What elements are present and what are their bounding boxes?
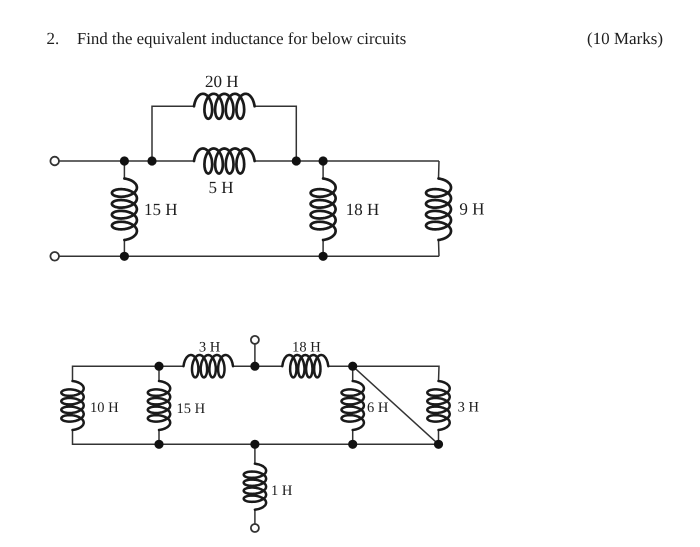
inductor 15 H (vertical) [112,179,137,241]
marks label "(10 Marks)" [588,32,663,47]
inductor 9 H (vertical, right edge) [426,179,451,241]
wire: diagonal short-circuit link [353,366,439,444]
node dot: top rail / 20H branch return [292,156,301,165]
node dot: top rail / 15H [120,156,129,165]
inductor 5 H (horizontal, main rail) [194,149,255,174]
inductor 10 H (vertical, left edge) [61,381,83,430]
node dot: circuit 2 bottom rail / 15H [154,440,163,449]
value label 20 H [206,76,238,88]
problem text "Find the equivalent inductance for below circuits" [77,32,405,47]
node dot: circuit 2 bottom rail right corner [434,440,443,449]
wire: lower 15H bottom lead [158,430,160,444]
value label 9 H [460,203,484,215]
wire: circuit 2 bottom rail [73,430,439,444]
value label 15 H [146,204,178,215]
wire: 15H bottom lead [123,240,125,256]
terminal: circuit 2 input top middle [251,336,259,344]
node dot: circuit 2 top rail / 6H and diagonal [348,362,357,371]
node dot: bottom rail / 15H [120,252,129,261]
wire: circuit 1 bottom rail [59,255,439,257]
wire: circuit 1 top rail left segment [59,160,194,162]
value label 10 H [91,402,118,412]
node dot: circuit 2 bottom rail / 6H [348,440,357,449]
wire: circuit 1 top rail right segment [255,160,439,162]
wire: 20H branch left riser [152,106,194,161]
wire: 1H top lead [254,444,256,463]
wire: 9H bottom lead (right edge) [438,240,441,256]
value label 6 H [368,402,388,412]
problem number "2." [47,33,58,45]
value label 1 H [272,485,292,495]
node dot: circuit 2 top rail / 15H [154,362,163,371]
value label 18 H (circuit 2) [293,342,320,352]
wire: 18H top lead [322,161,324,179]
terminal: circuit 2 output bottom [251,524,259,532]
wire: circuit 2 top rail between 3H and 18H [233,365,282,367]
terminal: circuit 1 input bottom [50,252,59,261]
inductor 3 H (vertical, right edge) [427,381,449,430]
wire: 18H bottom lead [322,240,324,256]
wire: lower 15H top lead [158,366,160,381]
value label 5 H [210,182,234,193]
value label 15 H (circuit 2) [178,403,205,413]
wire: circuit 2 top rail right of 18H [328,366,439,381]
wire: 9H top lead (right edge) [438,161,441,179]
inductor 15 H (vertical, circuit 2) [148,381,170,430]
inductor 20 H (horizontal, upper branch) [194,94,255,119]
wire: 6H top lead [352,366,354,381]
inductor 3 H (horizontal) [184,355,234,377]
wire: circuit 2 top rail left + 10H edge [73,366,184,381]
inductor 1 H (vertical, below bottom rail) [244,464,266,510]
node dot: circuit 2 top rail / input stem [250,362,259,371]
wire: input terminal stem [254,344,256,366]
wire: 6H bottom lead [352,430,354,444]
terminal: circuit 1 input top [50,157,59,166]
inductor 6 H (vertical) [342,381,364,430]
wire: 20H branch right riser [255,106,297,161]
wire: 15H top lead [123,161,125,179]
node dot: top rail / 18H [319,156,328,165]
value label 3 H (top) [200,342,220,352]
node dot: circuit 2 bottom rail / 1H [250,440,259,449]
value label 3 H (right edge) [458,402,478,412]
node dot: top rail / 20H branch start [147,156,156,165]
inductor 18 H (vertical) [311,179,336,241]
wire: 1H bottom lead [254,510,256,524]
node dot: bottom rail / 18H [319,252,328,261]
value label 18 H [347,204,379,216]
inductor 18 H (horizontal, circuit 2) [282,355,328,377]
